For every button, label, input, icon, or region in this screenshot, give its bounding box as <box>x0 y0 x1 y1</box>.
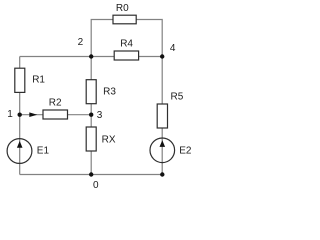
junction dot E2-rail <box>160 172 164 176</box>
svg-text:R4: R4 <box>120 39 133 50</box>
source E1 arrowhead <box>17 141 23 148</box>
wire R2 right to node3 <box>68 114 92 116</box>
svg-text:R1: R1 <box>32 74 45 85</box>
svg-text:1: 1 <box>7 109 13 120</box>
wire R1 bottom through node1 and E1 to bottom-left corner <box>19 92 21 174</box>
svg-text:4: 4 <box>170 43 176 54</box>
node 3 junction dot <box>89 113 93 117</box>
resistor R0 <box>113 15 136 24</box>
wire R5 bottom through E2 to bottom-right corner <box>161 128 163 175</box>
svg-text:R3: R3 <box>103 87 116 98</box>
svg-text:R5: R5 <box>171 91 184 102</box>
svg-text:RX: RX <box>102 135 116 146</box>
wire node3 to RX top <box>90 115 92 127</box>
wire left rail top to R1 <box>19 57 21 69</box>
svg-text:2: 2 <box>78 37 84 48</box>
resistor R4 <box>114 51 138 60</box>
bottom rail <box>20 174 163 176</box>
wire node2 to R3 top <box>90 57 92 80</box>
wire node4 to R5 top <box>161 57 163 105</box>
resistor R5 <box>157 104 167 128</box>
wire R4 right to node4 <box>139 56 163 58</box>
svg-text:E1: E1 <box>37 145 50 156</box>
current arrow on node1-R2 wire <box>29 112 37 117</box>
resistor RX <box>86 127 96 151</box>
wire R3 bottom to node3 <box>90 104 92 115</box>
resistor R3 <box>86 80 96 104</box>
svg-text:3: 3 <box>97 110 103 121</box>
wire node2 to R4 left <box>91 56 114 58</box>
resistor R2 <box>43 110 68 119</box>
wire R1 top corner to node2 <box>20 56 92 58</box>
source E1 circle <box>7 139 32 164</box>
node 2 junction dot <box>89 54 93 58</box>
source E2 circle <box>150 138 175 163</box>
source E2 arrowhead <box>160 140 166 147</box>
wire R0 right to right rail down to node4 <box>136 20 162 57</box>
wire node2 up to R0 branch <box>91 20 113 57</box>
svg-text:R0: R0 <box>116 3 129 14</box>
wire node1 to R2 left <box>20 114 43 116</box>
wire RX bottom to bottom rail <box>90 151 92 175</box>
svg-text:R2: R2 <box>49 98 62 109</box>
node 4 junction dot <box>160 54 164 58</box>
svg-text:0: 0 <box>93 180 99 191</box>
svg-text:E2: E2 <box>179 145 192 156</box>
junction dot RX-rail <box>89 172 93 176</box>
node 1 junction dot <box>18 113 22 117</box>
resistor R1 <box>15 68 25 92</box>
